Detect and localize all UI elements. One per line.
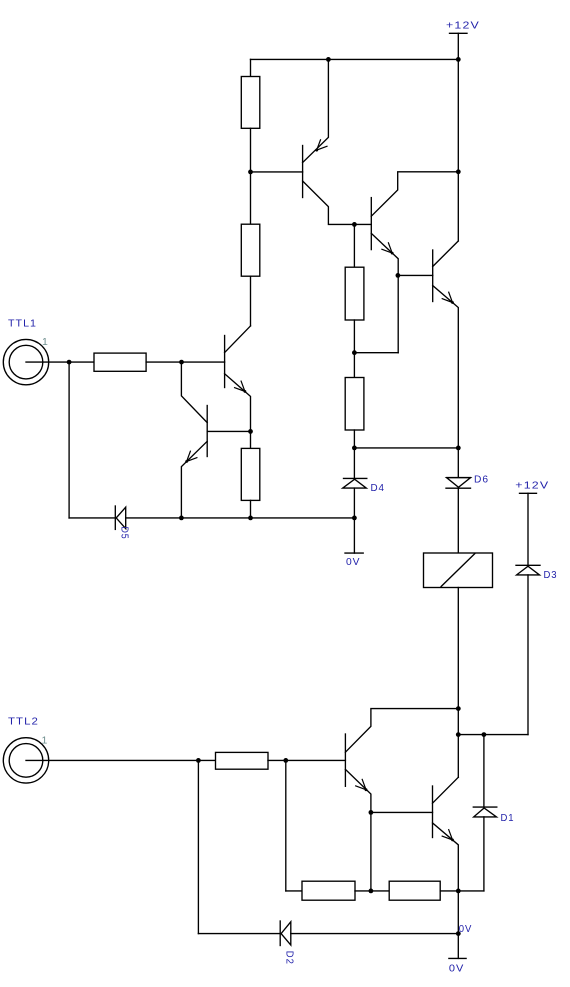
svg-text:D6: D6 — [474, 474, 489, 486]
svg-text:D1: D1 — [501, 812, 515, 824]
svg-text:TTL2: TTL2 — [8, 716, 39, 728]
svg-text:D2: D2 — [283, 951, 295, 965]
svg-text:0V: 0V — [346, 556, 361, 568]
svg-text:0V: 0V — [459, 923, 473, 935]
svg-text:+12V: +12V — [446, 20, 480, 32]
svg-text:TTL1: TTL1 — [8, 318, 37, 330]
svg-text:+12V: +12V — [515, 480, 549, 492]
svg-text:D5: D5 — [118, 527, 130, 540]
svg-text:D4: D4 — [371, 482, 386, 494]
svg-text:0V: 0V — [449, 963, 465, 975]
svg-text:D3: D3 — [544, 569, 558, 581]
